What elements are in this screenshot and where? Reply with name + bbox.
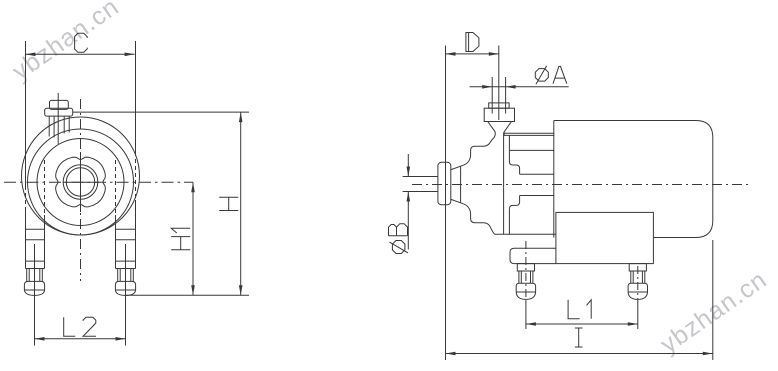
D right extension / pipe centerline <box>498 46 500 121</box>
motor body <box>554 121 713 238</box>
C extension / leg outer edge left <box>25 41 27 269</box>
ground extension line <box>126 294 250 296</box>
inlet cone upper / volute top profile <box>451 132 495 170</box>
watermark top-left <box>7 0 124 86</box>
watermark bottom-right <box>655 265 772 358</box>
clamp stems <box>49 116 69 137</box>
discharge neck right <box>503 132 505 136</box>
right foot stem <box>118 269 134 282</box>
shaft circle inner <box>66 168 94 196</box>
right leg rungs <box>116 229 136 295</box>
rear foot nut <box>629 264 646 271</box>
rear foot stem <box>631 271 645 283</box>
center cross <box>63 152 100 212</box>
left foot stem <box>27 269 43 282</box>
seal boss upper step <box>509 162 519 175</box>
front foot stem <box>519 271 533 283</box>
discharge ferrule lip <box>489 103 509 108</box>
pump casing outer circle <box>22 117 140 235</box>
left leg rungs <box>26 229 45 295</box>
inlet cone joint <box>460 166 462 203</box>
dimension L1 <box>526 300 638 329</box>
front foot bar <box>510 248 556 263</box>
front foot ball <box>516 283 535 299</box>
H top extension line <box>73 111 249 113</box>
dimension L2 <box>35 295 126 345</box>
inlet cone lower / volute bottom profile <box>451 199 495 234</box>
dimension D <box>446 52 499 56</box>
vertical centerline left view <box>80 99 82 281</box>
D/I left extension line <box>445 46 447 361</box>
dimension H <box>239 112 243 295</box>
impeller nut gear outline <box>56 157 106 207</box>
dimension H1 <box>191 182 195 295</box>
support bracket <box>556 212 654 263</box>
right leg inner edge <box>115 160 117 269</box>
C extension / leg outer edge right <box>135 41 137 269</box>
shaft <box>520 174 555 195</box>
dimension C: dim line <box>26 53 135 57</box>
dimension øA <box>470 85 569 89</box>
casing cover circle <box>28 129 134 235</box>
seal boss lower step <box>509 196 519 209</box>
clamp bolt bar <box>45 108 73 116</box>
clamp bolt centerline <box>57 93 59 144</box>
horizontal centerline left view <box>4 181 193 183</box>
dimension C: label <box>75 33 88 52</box>
right foot ball <box>115 281 135 295</box>
left leg inner edge <box>44 160 46 269</box>
dimension I <box>446 240 713 360</box>
discharge clamp ring <box>484 108 514 121</box>
rear foot ball <box>628 283 647 299</box>
casing backplate <box>504 133 510 235</box>
front foot (right view left) nut <box>517 264 534 271</box>
dimension øB <box>403 154 438 250</box>
adapter barrel <box>495 133 556 234</box>
left foot ball <box>24 281 44 295</box>
rear foot centerline <box>637 266 639 299</box>
discharge pipe <box>492 77 505 114</box>
discharge funnel <box>488 122 512 132</box>
cover inner circle <box>37 139 124 226</box>
main centerline <box>412 184 748 186</box>
svg-text:ybzhan.cn: ybzhan.cn <box>7 0 124 86</box>
front foot centerline <box>525 241 527 299</box>
inlet ferrule <box>438 162 451 205</box>
shaft circle outer <box>63 165 98 200</box>
motor front face <box>553 121 555 238</box>
svg-text:ybzhan.cn: ybzhan.cn <box>655 265 772 358</box>
clamp bolt cap <box>50 100 69 109</box>
